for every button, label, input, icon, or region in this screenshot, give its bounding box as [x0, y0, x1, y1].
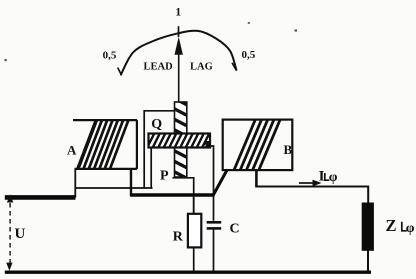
lead from bar to C: [210, 146, 214, 221]
capacitor C lead bottom: [213, 230, 215, 273]
svg-text:0,5: 0,5: [242, 49, 256, 61]
moving coil frame top: [144, 111, 174, 188]
voltage U arrow up: [7, 194, 13, 202]
coil B output drop: [255, 170, 258, 187]
impedance Z (black box): [362, 203, 374, 251]
svg-text:Q: Q: [151, 117, 162, 132]
moving coil Q bar (hatched): [146, 130, 217, 150]
spindle shaft (hatched): [170, 96, 192, 202]
svg-text:B: B: [284, 142, 293, 157]
coil A pedestal right drop: [130, 170, 132, 197]
needle pointer: [175, 37, 183, 55]
wire to load: [255, 187, 368, 204]
scale tick left 0.5: [118, 68, 122, 76]
svg-text:A: A: [67, 143, 77, 158]
svg-text:U: U: [15, 226, 26, 242]
svg-text:I: I: [319, 169, 325, 185]
bar end block: [206, 141, 211, 148]
resistor R lead bottom: [193, 247, 195, 272]
lead Z to bottom wire: [367, 250, 369, 271]
bracket under shaft: [173, 178, 194, 214]
svg-text:LEAD: LEAD: [144, 61, 174, 72]
speck: [295, 30, 298, 32]
bottom wire: [5, 271, 371, 274]
slanted wire to coil B: [213, 170, 228, 197]
voltage U arrow down: [6, 263, 12, 271]
current arrow: [299, 182, 315, 184]
svg-text:LAG: LAG: [190, 61, 213, 72]
svg-text:R: R: [173, 229, 184, 244]
svg-text:Z: Z: [386, 216, 397, 235]
scale tick right 0.5: [232, 63, 237, 71]
fixed coil A: [73, 117, 137, 172]
svg-text:φ: φ: [329, 170, 338, 185]
coil A pedestal connector: [75, 187, 153, 189]
svg-text:0,5: 0,5: [103, 50, 117, 62]
fixed coil B: [223, 117, 293, 172]
svg-text:φ: φ: [406, 221, 415, 236]
coil A pedestal left: [74, 169, 76, 198]
svg-text:P: P: [160, 169, 169, 184]
main wire left: [5, 195, 76, 200]
svg-text:1: 1: [175, 5, 181, 19]
capacitor C plates: [207, 221, 222, 224]
moving coil frame inner lead: [150, 148, 152, 188]
main wire center: [130, 193, 215, 197]
voltage U dashed line: [9, 203, 11, 263]
resistor R: [188, 214, 201, 248]
scale arc: [121, 31, 237, 75]
scale tick for 1: [178, 26, 180, 37]
resistor R lead top: [193, 195, 195, 214]
svg-text:C: C: [230, 222, 240, 237]
